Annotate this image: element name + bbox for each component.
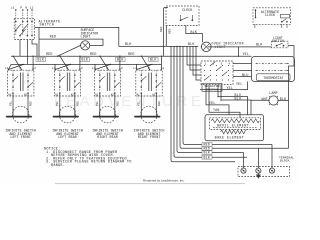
switch contacts (right front) (141, 74, 143, 76)
svg-text:BLK: BLK (191, 30, 198, 34)
switch arms (right rear) (100, 76, 105, 81)
svg-text:LAMP: LAMP (269, 91, 278, 95)
wire: alternate switch loop to middle (35, 27, 119, 46)
svg-text:YEL: YEL (209, 101, 216, 105)
wire: switch to element (right front) (141, 93, 156, 117)
svg-text:TAN: TAN (213, 108, 220, 112)
svg-text:THERMOSTAT: THERMOSTAT (263, 76, 283, 80)
switch contact columns (left rear) (60, 70, 75, 91)
oven indicator light label (212, 42, 244, 49)
svg-text:SWITCH: SWITCH (40, 24, 55, 28)
bundle vertical 1 (171, 46, 235, 161)
wire: switch to element (left rear) (60, 93, 75, 117)
junction dots on buses (left rear) (59, 56, 60, 57)
label BLK boxed between buses (149, 58, 159, 62)
surface element (right front) (141, 106, 158, 123)
terminal dots L1 P L2 (left front) (8, 69, 9, 70)
svg-text:RED: RED (46, 52, 53, 56)
svg-text:YEL: YEL (227, 86, 234, 90)
wires: alternate switch drops to buses (20, 40, 37, 65)
svg-text:YEL: YEL (138, 101, 141, 106)
infinite switch right front (133, 56, 164, 141)
thermostat (252, 57, 295, 82)
svg-text:CLOCK: CLOCK (182, 9, 192, 13)
broil element (211, 119, 259, 128)
svg-text:BLK: BLK (38, 58, 45, 62)
svg-text:BLK: BLK (188, 42, 195, 46)
ground (256, 173, 261, 178)
svg-text:H2: H2 (71, 94, 75, 97)
svg-text:YEL: YEL (56, 101, 59, 106)
switch contact columns (left front) (13, 70, 28, 91)
svg-text:H1: H1 (55, 94, 59, 97)
junction dots on buses (right front) (141, 56, 142, 57)
svg-text:RANGE.: RANGE. (51, 164, 65, 168)
svg-text:LIGHT: LIGHT (81, 35, 91, 39)
switch enclosure (left front) (8, 70, 34, 96)
svg-text:H2: H2 (111, 94, 115, 97)
svg-text:L2: L2 (30, 7, 34, 10)
svg-text:LEFT REAR: LEFT REAR (58, 136, 77, 140)
wire: riser and feed to surface light (38, 27, 40, 56)
label BLK boxed between buses (36, 58, 46, 62)
light switch label (272, 36, 284, 43)
bundle vertical 2 (174, 46, 247, 157)
switch enclosure (right rear) (94, 70, 120, 96)
svg-text:BLU: BLU (242, 73, 249, 77)
svg-text:YEL: YEL (243, 52, 250, 56)
svg-text:RED: RED (50, 35, 57, 39)
wire: bus fan to terminals (right rear) (100, 56, 108, 69)
svg-text:BAKE ELEMENT: BAKE ELEMENT (215, 136, 245, 140)
label BLK boxed between buses (116, 58, 126, 62)
svg-text:Rendered by LeadVenture, Inc.: Rendered by LeadVenture, Inc. (143, 179, 185, 183)
wire: BLK line C to oven light (119, 45, 198, 47)
wire: bus fan to terminals (right front) (142, 56, 150, 69)
wires: nested taps to selector switch (187, 46, 201, 65)
svg-text:WHT: WHT (262, 97, 269, 101)
wire: bus fan to terminals (left rear) (60, 56, 68, 69)
junction dots on buses (left front) (13, 56, 14, 57)
surface element (left front) (12, 106, 29, 123)
switch arms (left front) (13, 76, 18, 81)
label BLK boxed (bundle) (202, 155, 212, 159)
junction dots on line C (163, 46, 164, 47)
svg-text:H2: H2 (152, 94, 156, 97)
svg-text:RED: RED (116, 101, 119, 106)
svg-text:N: N (25, 7, 27, 10)
oven lamp (268, 91, 278, 105)
wire: clock lead to line C (165, 26, 167, 47)
switch arms (right front) (141, 76, 146, 81)
wire: clock BLK lead (186, 26, 203, 43)
wires: YEL and TAN to bake element box (206, 85, 240, 118)
switch enclosure (right front) (136, 70, 162, 96)
label RED boxed (bundle) (202, 146, 212, 150)
label BLK boxed between buses (80, 58, 90, 62)
surface indicator light label (81, 28, 99, 38)
svg-text:RED: RED (76, 101, 79, 106)
alternate switch label (39, 21, 61, 28)
clock enclosure (166, 6, 199, 26)
terminal dots L1 P L2 (right front) (136, 69, 137, 70)
wire: lamp WHT lead (251, 99, 269, 101)
svg-text:RED: RED (160, 26, 163, 32)
svg-text:YEL: YEL (236, 82, 243, 86)
bus BLK (lower) (11, 63, 161, 65)
svg-text:YEL: YEL (9, 101, 12, 106)
svg-text:YEL: YEL (96, 101, 99, 106)
bundle vertical 5 (183, 46, 272, 144)
light switch (272, 41, 289, 48)
svg-text:H2: H2 (24, 94, 28, 97)
svg-text:BLK: BLK (150, 58, 157, 62)
bundle vertical 3 (177, 46, 244, 152)
svg-text:RIGHT FRONT: RIGHT FRONT (138, 136, 161, 140)
oven indicator light (201, 42, 212, 52)
switch contact columns (right front) (141, 70, 156, 91)
svg-text:LEFT FRONT: LEFT FRONT (10, 136, 31, 140)
svg-text:RED: RED (30, 101, 33, 106)
wire: lamp BLK down (278, 100, 288, 102)
bake element (215, 130, 247, 140)
svg-text:BLOCK: BLOCK (280, 159, 290, 163)
terminal block (238, 145, 290, 177)
svg-text:RED: RED (90, 52, 97, 56)
svg-text:H1: H1 (137, 94, 141, 97)
label BLK boxed (bundle) (202, 151, 212, 155)
notice text (44, 148, 132, 169)
svg-text:H1: H1 (8, 94, 12, 97)
wire: thermostat bottom YEL return (200, 82, 248, 90)
alternate switch enclosure (11, 7, 35, 40)
svg-text:BROIL ELEMENT: BROIL ELEMENT (217, 123, 249, 127)
svg-text:CLOCK: CLOCK (265, 13, 275, 17)
infinite switch left rear (52, 56, 83, 141)
svg-text:BLK: BLK (256, 43, 263, 47)
svg-text:BLK: BLK (82, 58, 89, 62)
switch arms (left rear) (60, 76, 65, 81)
svg-text:BLK: BLK (204, 151, 211, 155)
svg-text:BLK: BLK (204, 155, 211, 159)
selector switch label (202, 84, 222, 92)
wire: switch to element (right rear) (100, 93, 115, 117)
surface indicator light (80, 41, 91, 50)
surface element (right rear) (99, 106, 116, 123)
alternate clock (253, 8, 291, 28)
wires: BLU leads to element box (217, 85, 251, 115)
infinite switch left front (5, 56, 36, 141)
terminal block label (279, 155, 294, 162)
junction dots on buses (right rear) (99, 56, 100, 57)
label RED boxed (bundle) (202, 143, 212, 147)
terminal dots L1 P L2 (right rear) (95, 69, 96, 70)
wire: light switch right lead down right edge (288, 46, 294, 149)
svg-text:L1: L1 (11, 7, 15, 10)
bus RED (upper) (11, 55, 252, 57)
bottom rule (55, 183, 245, 185)
switch contacts (left front) (12, 74, 14, 76)
wire: surface light left lead diagonal to bus (58, 45, 81, 56)
wire: oven light to bus (208, 47, 239, 56)
wire: light switch left lead (239, 46, 272, 48)
svg-text:RED: RED (168, 28, 171, 34)
wire: clock left lead to bus (164, 8, 169, 57)
bake/broil element box (205, 115, 264, 141)
switch contacts (left rear) (59, 74, 61, 76)
svg-text:RED: RED (128, 52, 135, 56)
svg-text:RIGHT REAR: RIGHT REAR (97, 136, 118, 140)
svg-text:H1: H1 (95, 94, 99, 97)
surface element (left rear) (59, 106, 76, 123)
selector switch (201, 61, 233, 85)
wires: selector to thermostat (233, 63, 252, 65)
bundle vertical 4 (180, 46, 289, 148)
svg-text:BLU: BLU (235, 97, 242, 101)
infinite switch right rear (92, 56, 123, 141)
wire: switch to element (left front) (13, 93, 28, 117)
switch enclosure (left rear) (54, 70, 80, 96)
terminal dots L1 P L2 (left rear) (55, 69, 56, 70)
svg-text:RED: RED (158, 101, 161, 106)
switch contact columns (right rear) (100, 70, 115, 91)
wire selector to thermostat row3 (233, 76, 252, 78)
svg-text:BLK: BLK (125, 42, 132, 46)
wire: bus fan to terminals (left front) (13, 56, 21, 69)
svg-text:P: P (20, 7, 22, 10)
switch contacts (right rear) (99, 74, 101, 76)
